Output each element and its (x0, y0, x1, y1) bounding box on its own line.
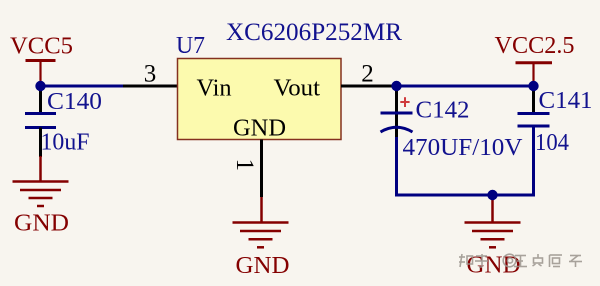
power VCC5 stem (39, 61, 41, 87)
svg-text:3: 3 (144, 61, 157, 88)
ground stem right (491, 195, 494, 223)
svg-text:XC6206P252MR: XC6206P252MR (226, 19, 402, 46)
capacitor C140 plates (25, 112, 56, 115)
pin 3 of U7 (123, 85, 178, 88)
capacitor C142 top leg (395, 86, 398, 137)
svg-text:Vin: Vin (197, 76, 232, 102)
svg-text:1: 1 (231, 159, 258, 172)
capacitor C140 top leg (39, 86, 42, 114)
ground symbol right (465, 223, 521, 248)
svg-text:C140: C140 (47, 89, 102, 115)
capacitor C141 plates (518, 112, 550, 115)
node junction dot at (533.5,86) (528, 81, 538, 91)
svg-text:U7: U7 (176, 33, 205, 59)
svg-text:10uF: 10uF (41, 130, 90, 156)
svg-text:104: 104 (535, 130, 569, 156)
power VCC2.5 stem (532, 63, 534, 86)
pin 2 of U7 (341, 85, 397, 88)
svg-text:VCC2.5: VCC2.5 (495, 33, 575, 59)
capacitor C141 top leg (532, 86, 535, 114)
node junction dot at (40.5,86) (35, 81, 45, 91)
power VCC2.5 bar (516, 61, 553, 64)
wire bottom rail (395, 194, 535, 197)
svg-text:C141: C141 (539, 88, 593, 114)
wire C141 bottom leg (532, 126, 535, 197)
svg-text:GND: GND (233, 116, 286, 142)
watermark 知乎 @正点原子 (459, 254, 582, 267)
svg-text:VCC5: VCC5 (10, 34, 73, 60)
regulator U7 body (178, 59, 342, 140)
wire VCC5 to pin 3 (41, 85, 124, 88)
wire output to C141 (397, 85, 534, 88)
capacitor C142 curved plate (381, 127, 413, 132)
ground stem middle (260, 197, 263, 223)
svg-text:GND: GND (236, 253, 290, 279)
svg-text:470UF/10V: 470UF/10V (403, 135, 524, 161)
svg-text:GND: GND (14, 211, 69, 237)
wire C142 bottom leg (395, 137, 398, 197)
ground symbol left (13, 182, 69, 207)
node junction dot at (396.5,86) (391, 81, 401, 91)
node junction dot at (492.5,195) (487, 190, 497, 200)
pin 1 of U7 (260, 140, 263, 198)
capacitor C142 flat plate (381, 112, 413, 115)
capacitor C140 bottom leg (39, 128, 42, 158)
power VCC5 bar (26, 59, 56, 62)
svg-text:Vout: Vout (274, 76, 321, 102)
capacitor C142 plus sign (400, 97, 409, 107)
svg-text:C142: C142 (416, 98, 470, 124)
ground stem left (39, 156, 42, 182)
svg-text:2: 2 (361, 61, 374, 88)
ground symbol middle (233, 223, 289, 248)
